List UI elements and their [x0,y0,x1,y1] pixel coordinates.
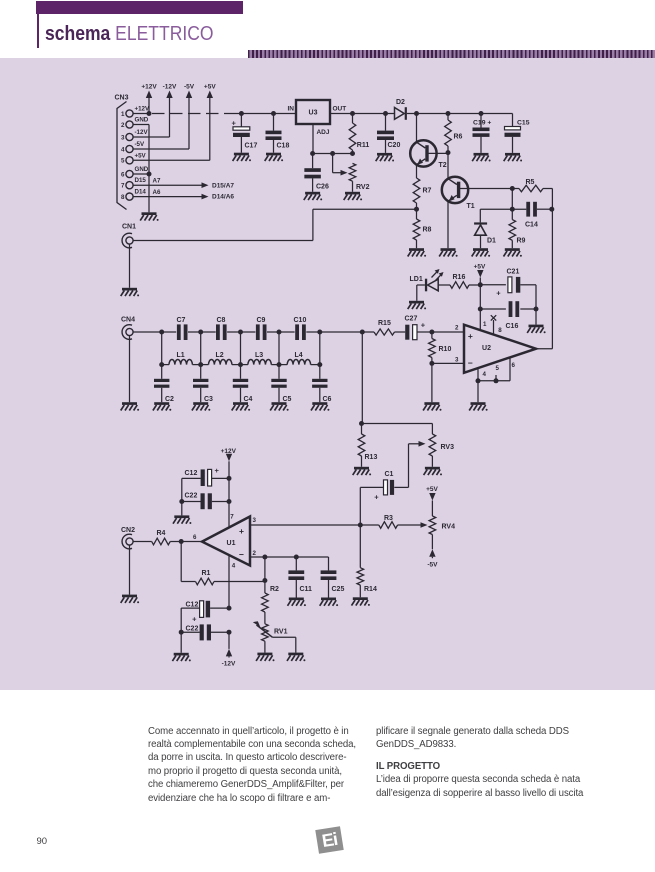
svg-text:+: + [192,615,197,624]
wire CN3 pin2 GND [133,125,149,213]
svg-text:8: 8 [121,194,125,201]
transistor T2 [410,140,447,169]
node ADJ row [310,151,355,156]
resistor R9 [509,209,526,248]
node R7/R8 [414,207,419,212]
trimmer RV3 [362,424,455,467]
capacitor C22 top [179,493,231,509]
wire U1 pin2 row [250,555,329,560]
capacitor C5 [271,365,291,403]
wire T1 base [458,188,512,190]
ground R13 [353,467,371,476]
svg-text:R8: R8 [423,227,432,234]
resistor R8 [413,209,431,248]
svg-text:C16: C16 [506,323,519,330]
ground U2 pin4 [469,402,487,411]
svg-text:LD1: LD1 [410,276,423,283]
ground CN2 [121,595,139,604]
svg-text:C2: C2 [165,396,174,403]
svg-text:R16: R16 [453,274,466,281]
svg-text:R9: R9 [517,238,526,245]
svg-text:-12V: -12V [163,84,177,91]
capacitor C22 bottom [179,624,232,640]
capacitor C2 [154,365,174,403]
ground C2 [153,402,171,411]
node filter junctions top [159,330,322,335]
wire R10 to ground [431,363,433,402]
power +5V RV4 [426,486,438,516]
wire LD1 anode [417,285,425,301]
svg-text:R7: R7 [423,188,432,195]
label C22 top [185,493,198,500]
striped bar [248,50,655,59]
svg-text:7: 7 [121,183,125,190]
svg-text:C20: C20 [388,142,401,149]
ground C6 [311,402,329,411]
wire U2 pins 4-5-6 [476,357,511,402]
wire C22b to ground [180,632,182,653]
wire CN3 pin8 D14/A6 [133,189,234,201]
svg-text:5: 5 [496,365,500,372]
svg-text:D14: D14 [135,189,147,196]
svg-text:T2: T2 [439,162,447,169]
svg-text:3: 3 [121,134,125,141]
resistor R2 [262,581,279,624]
svg-text:C14: C14 [525,222,538,229]
wire RV3 wiper [409,441,426,487]
svg-text:A7: A7 [153,178,161,185]
svg-text:2: 2 [121,122,125,129]
svg-text:C9: C9 [257,317,266,324]
capacitor C26 [304,154,329,192]
inductor L2 [201,352,241,365]
resistor R14 [357,525,377,597]
svg-text:C12: C12 [185,470,198,477]
svg-text:R5: R5 [526,179,535,186]
ground C11 [288,598,306,607]
svg-text:D15: D15 [135,177,147,184]
svg-text:4: 4 [121,146,125,153]
ground C3 [192,402,210,411]
svg-text:+5V: +5V [426,486,438,493]
ground CN1 [121,288,139,297]
svg-text:+: + [239,526,244,536]
diode D1 [474,209,496,248]
wire U1 pin7 [228,478,230,527]
connector CN4 [121,317,135,340]
led LD1 [410,269,444,291]
ground R10 [423,402,441,411]
svg-text:D1: D1 [487,238,496,245]
svg-text:4: 4 [483,371,487,378]
svg-text:R3: R3 [384,515,393,522]
capacitor C14 [480,202,554,229]
svg-text:C3: C3 [204,396,213,403]
svg-text:C22: C22 [185,493,198,500]
resistor R15 [362,320,405,335]
svg-text:1: 1 [121,111,125,118]
trimmer RV1 [253,621,296,652]
svg-text:C21: C21 [507,269,520,276]
svg-text:OUT: OUT [333,106,347,113]
wire C22 to ground [181,502,183,516]
node rail to R13 [360,330,365,335]
svg-text:R10: R10 [439,346,452,353]
capacitor C15 [481,114,530,153]
svg-text:C1: C1 [385,471,394,478]
wire pin2 to R2 [262,557,267,583]
ground C16 [527,325,545,334]
svg-text:5: 5 [121,158,125,165]
Ei logo [315,826,343,854]
ground C19 [472,153,490,162]
ground D1 [472,248,490,257]
power +5V U2 [474,264,486,285]
svg-text:+: + [232,119,237,128]
svg-text:R11: R11 [357,142,370,149]
resistor R7 [413,178,431,209]
svg-text:+5V: +5V [135,152,147,159]
node R6 bottom [446,150,451,155]
svg-text:+: + [496,288,501,297]
capacitor C4 [233,365,253,403]
svg-text:+: + [215,466,220,475]
svg-text:−: − [468,358,473,368]
capacitor C1 [360,471,408,525]
svg-text:R1: R1 [202,570,211,577]
body text left column [148,725,370,805]
ground RV2 [344,192,362,201]
svg-text:C27: C27 [405,316,418,323]
svg-text:+5V: +5V [204,84,216,91]
svg-text:RV4: RV4 [442,524,456,531]
capacitor C3 [193,365,213,403]
connector CN2 [121,527,135,549]
node R4/R1 [179,539,184,544]
wire T2 collector [416,114,418,143]
ground T1 [439,248,457,257]
power -5V RV4 [427,535,438,569]
svg-text:A6: A6 [153,189,161,196]
pin U2 pin8 NC [491,315,503,334]
svg-text:2: 2 [455,325,459,332]
svg-text:C12: C12 [186,602,199,609]
wire +12V dashed rail [152,113,296,115]
svg-text:GND: GND [135,166,149,173]
wire U1 pin4 [228,556,230,608]
svg-text:+: + [374,493,379,502]
capacitor C17 [232,111,258,153]
node filter junctions bottom [159,362,322,367]
svg-text:R15: R15 [378,320,391,327]
capacitor C7 [177,317,216,340]
wire CN4 ground stub [129,336,131,403]
wire CN1 ground stub [129,244,131,288]
capacitor C16 [478,301,539,330]
capacitor C10 [294,317,363,340]
svg-text:C10: C10 [294,317,307,324]
transistor T1 [442,177,475,210]
svg-text:L3: L3 [255,352,263,359]
svg-text:R4: R4 [157,530,166,537]
capacitor C9 [256,317,295,340]
node pin6 junction [133,172,151,177]
svg-text:R2: R2 [270,586,279,593]
svg-text:6: 6 [193,534,197,541]
svg-text:C7: C7 [177,317,186,324]
capacitor C25 [321,557,345,598]
regulator U3 [288,100,347,136]
svg-text:+5V: +5V [474,264,486,271]
svg-text:C17: C17 [245,143,258,150]
ground C26 [304,192,322,201]
ground C20 [376,153,394,162]
capacitor C8 [216,317,255,340]
resistor R10 [429,332,452,363]
wire U3 ADJ [312,124,314,154]
wire CN2 ground stub [129,545,131,595]
title schema ELETTRICO [45,22,214,46]
ground C4 [232,402,250,411]
node U2 pin2 [429,330,464,335]
svg-text:L2: L2 [216,352,224,359]
ground R14 [352,597,370,606]
svg-text:7: 7 [230,514,234,521]
wire R5-C14 right link [551,189,553,349]
svg-text:C25: C25 [332,586,345,593]
node filter links [162,332,320,365]
svg-text:C19 +: C19 + [473,120,491,127]
ground RV3 [424,467,442,476]
wire U3 OUT rail [330,113,395,115]
svg-text:RV1: RV1 [274,629,288,636]
svg-text:CN3: CN3 [115,95,129,102]
svg-text:C18: C18 [277,143,290,150]
wire CN3 pin4 to -5V [133,84,195,150]
svg-text:+: + [421,321,426,330]
ground CN4 [121,402,139,411]
svg-text:+12V: +12V [221,448,237,455]
svg-text:+12V: +12V [141,84,157,91]
power +12V U1 [221,448,237,479]
capacitor C19 [473,111,492,153]
svg-text:C5: C5 [283,396,292,403]
ground C5 [270,402,288,411]
ground C25 [320,598,338,607]
diode D2 [395,99,407,120]
op-amp U1 [193,514,256,570]
svg-text:R13: R13 [365,454,378,461]
svg-text:IN: IN [288,106,295,113]
capacitor C11 [288,557,312,598]
resistor R6 [445,111,463,153]
svg-text:CN2: CN2 [121,527,135,534]
ground RV1 wiper [287,653,305,662]
header left rule [37,14,39,48]
ground C12/C22 bottom [172,653,190,662]
svg-text:D15/A7: D15/A7 [212,182,234,189]
svg-text:3: 3 [253,517,257,524]
node C14 left [510,189,515,212]
svg-text:C6: C6 [323,396,332,403]
node D2 cathode [407,111,481,116]
ground CN3 [140,212,158,221]
resistor R16 [438,274,480,289]
svg-text:8: 8 [498,327,502,334]
svg-text:-5V: -5V [135,141,146,148]
svg-text:R6: R6 [454,134,463,141]
capacitor C27 [405,316,432,340]
inductor L4 [279,352,320,365]
wire CN3 pin3 to -12V [133,84,177,138]
ground RV1 [256,653,274,662]
op-amp U2 [455,325,536,378]
ground C12/C22 top [173,515,191,524]
svg-text:ADJ: ADJ [316,129,329,136]
svg-text:D14/A6: D14/A6 [212,194,234,201]
svg-text:D2: D2 [396,99,405,106]
wire rail down to R13 [359,332,364,426]
inductor L1 [162,352,201,365]
svg-text:-12V: -12V [135,129,149,136]
wire CN1 to T1/T2 node [133,209,416,240]
svg-text:+: + [468,331,473,341]
svg-text:6: 6 [512,362,516,369]
wire C16 to ground [535,309,537,325]
page number 90 [37,837,48,847]
body text right column [376,725,603,801]
svg-text:L4: L4 [295,352,303,359]
connector CN3 [115,95,150,210]
svg-text:CN4: CN4 [121,317,135,324]
capacitor C6 [312,365,331,403]
svg-text:GND: GND [135,117,149,124]
resistor R5 [510,179,553,192]
svg-text:2: 2 [253,550,257,557]
ground C18 [265,153,283,162]
svg-text:C8: C8 [217,317,226,324]
wire CN3 pin5 to +5V [133,84,216,161]
svg-text:CN1: CN1 [122,224,136,231]
wire T2 emitter [416,165,418,178]
svg-text:L1: L1 [177,352,185,359]
wire filter rail [133,331,176,333]
power +12V arrow [141,84,157,114]
resistor R3 [379,515,421,528]
wire CN3 pin1 to +12V rail [133,111,151,116]
capacitor C20 [377,111,400,153]
resistor R4 [133,530,202,545]
resistor R11 [349,111,369,154]
svg-text:−: − [239,550,244,560]
svg-text:1: 1 [483,321,487,328]
ground R9 [504,248,522,257]
resistor R13 [358,424,377,467]
capacitor C21 [480,269,536,310]
svg-text:R14: R14 [364,586,377,593]
svg-text:C4: C4 [244,396,253,403]
wire U2 pin1 [480,285,487,330]
ground C15 [504,153,522,162]
svg-text:T1: T1 [467,203,475,210]
svg-text:3: 3 [455,357,459,364]
wire T1 collector [447,153,449,179]
wire U2 output [536,348,552,350]
svg-text:-12V: -12V [222,661,236,668]
inductor L3 [241,352,280,365]
ground C17 [233,153,251,162]
svg-text:C26: C26 [316,184,329,191]
capacitor C12 top [182,466,232,502]
svg-text:RV3: RV3 [441,444,455,451]
power -12V U1 [222,632,236,667]
svg-text:C11: C11 [300,586,313,593]
schematic panel background [0,58,655,690]
trimmer RV2 [333,154,370,192]
connector CN1 [122,224,136,248]
wire T2 base [427,152,448,154]
ground LD1 [408,301,426,310]
trimmer RV4 [421,516,456,535]
svg-text:-5V: -5V [427,561,438,568]
wire U1 output row [250,523,379,528]
node R16/C21 [478,282,483,287]
svg-text:U1: U1 [227,540,236,547]
svg-text:C15: C15 [517,120,530,127]
svg-text:4: 4 [232,563,236,570]
svg-text:6: 6 [121,171,125,178]
header purple bar [36,1,243,14]
ground R8 [408,248,426,257]
svg-text:U3: U3 [309,110,318,117]
svg-text:-5V: -5V [184,84,195,91]
node U2 pin3 [429,361,464,366]
capacitor C18 [266,111,290,153]
resistor R1 [181,542,265,585]
svg-text:U2: U2 [482,345,491,352]
capacitor C12 bottom [181,601,231,632]
svg-text:RV2: RV2 [356,184,370,191]
svg-text:C22: C22 [186,625,199,632]
wire CN3 pin7 D15/A7 [133,178,234,190]
wire T1 emitter [447,201,449,248]
label C22 bottom [186,625,199,632]
